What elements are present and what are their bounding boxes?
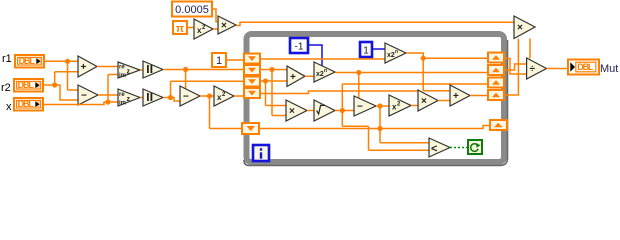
wire scale1 to right sr2 and sr3 [335,73,488,99]
junction negate [377,103,382,108]
wire pi to square [187,27,194,29]
while loop frame [244,34,508,166]
svg-text:-1: -1 [295,42,304,53]
scale by 2^n 2 [385,43,406,63]
junction subtract2 [207,93,212,98]
wire divide to indicator [547,68,569,70]
svg-text:+: + [453,91,459,102]
wire add2 to right sr4 [470,95,488,97]
absolute value 2 [143,89,163,106]
wire re/im2 to abs2 [140,97,143,99]
svg-text:+: + [81,62,87,73]
svg-text:÷: ÷ [530,64,536,75]
svg-text:re: re [119,92,125,98]
loop condition terminal [468,140,482,154]
multiply 2 (loop) [418,90,438,111]
junction r1 [65,59,70,64]
junction abs2 [168,95,173,100]
svg-text:z: z [127,96,131,103]
svg-text:+: + [290,72,296,83]
green wire to condition [450,147,468,149]
wire r2 to add and subtract [43,72,78,100]
svg-text:r2: r2 [1,82,11,94]
svg-text:n: n [395,49,398,55]
indicator Mut DBL [568,60,599,75]
wire multiply-right to divide [529,39,531,59]
svg-text:n: n [324,68,327,74]
add (r1+r2) [78,56,97,77]
wire r1 to add and subtract [44,61,78,90]
wire abs1 to shift register 2 and subtract2 [163,70,244,90]
wire sr3 to multiply-loop top [260,81,287,106]
junction sqrt [340,108,345,113]
multiply (top right) [514,16,535,39]
svg-text:r1: r1 [2,53,12,65]
divide [527,58,547,79]
svg-text:−: − [183,92,189,103]
bottom wire sr5 to right sr5 [259,126,490,129]
square x^2 (top) [194,19,213,39]
constant 1 (blue) [360,42,372,57]
wire re/im1 to abs1 [140,69,143,71]
wire right sr1 to divide bottom [504,59,527,75]
junction abs1 [183,67,188,72]
constant 1 (orange) [212,53,226,67]
svg-text:DBL: DBL [19,56,36,66]
svg-text:Mut: Mut [600,63,618,75]
wire 0.0005 to multiply [212,9,218,22]
junction x [105,99,110,104]
svg-text:re: re [119,64,125,70]
wire x to both re/im [43,75,118,105]
svg-text:im: im [119,101,126,107]
multiply (top-left) [218,16,236,34]
square root [314,100,335,121]
wire right sr4 to multiply-right [504,39,518,96]
right shift register 3 [488,78,504,88]
svg-text:×: × [421,96,427,107]
svg-text:−: − [81,91,87,102]
svg-text:×: × [289,106,295,117]
wire multiply-loop to sqrt [307,110,314,112]
svg-text:0.0005: 0.0005 [175,4,209,16]
svg-text:π: π [176,23,185,35]
svg-text:1: 1 [216,55,222,67]
less than [429,138,450,157]
iteration terminal i [253,145,269,161]
wire scale2 to right sr1 and multiply2 [406,53,488,91]
svg-text:DBL: DBL [18,80,35,90]
left shift register 1 [244,54,260,64]
long wire to top-right multiply [236,22,514,25]
svg-text:x: x [6,101,12,113]
blue wire -1 to scale1 [308,45,322,66]
svg-text:DBL: DBL [18,99,35,109]
absolute value 1 [143,61,163,78]
wire add to re/im 1 [97,66,118,68]
wire sr4 to multiply2 top [260,91,418,94]
svg-text:x2: x2 [316,71,324,78]
terminal r1 DBL [15,55,44,68]
wire right sr2 to divide top [504,64,527,70]
svg-text:−: − [357,102,363,113]
wire add-loop to scale1 [305,75,314,77]
multiply (loop) [286,100,307,121]
terminal x DBL [14,98,43,111]
svg-text:x2: x2 [387,52,395,59]
subtract 2 [180,86,200,106]
junction sr2 [269,67,274,72]
svg-text:×: × [517,23,523,34]
square x^2 (loop) [389,95,411,116]
add (loop) [287,66,305,87]
re/im to complex 2 [118,89,140,107]
negate [354,96,376,116]
right shift register 2 [488,65,504,75]
left shift register 4 [244,88,260,98]
junction bottom [377,126,382,131]
wire const1 to shift register 1 [226,59,244,61]
wire square-loop to multiply2 [411,105,418,107]
wire multiply2 to add2 [438,100,450,102]
constant 0.0005 [172,2,212,17]
wire square to shift register 4 [234,95,244,97]
constant -1 (blue) [290,38,308,53]
re/im to complex 1 [118,62,140,79]
blue wire 1 to scale2 [372,48,385,50]
scale by 2^n 1 [314,62,335,82]
wire subtract to re/im 2 [98,94,118,96]
left shift register 3 [244,77,260,87]
svg-text:DBL: DBL [577,62,594,72]
junction scale2 [421,56,426,61]
wire abs2 to subtract2 and shift register 3 [163,81,244,101]
right shift register 5 [490,120,507,130]
junction scale1 [356,70,361,75]
terminal r2 DBL [14,79,43,92]
subtract (r1-r2) [78,85,98,105]
svg-text:<: < [431,143,437,155]
wire negate to square-loop and down [376,106,429,143]
constant pi [173,21,187,35]
left shift register 5 [242,123,259,134]
right shift register 1 [488,53,504,63]
wire sr2 to add-loop and multiply-loop [260,70,287,116]
right shift register 4 [488,90,504,100]
wire sr1 to scale2 [260,58,385,60]
square x^2 (feeder) [214,86,234,106]
junction r2 [52,82,57,87]
svg-text:×: × [221,21,227,32]
svg-text:im: im [119,73,126,79]
left shift register 2 [244,65,260,75]
wire sqrt output junction [335,84,488,150]
junction sr3 [263,78,268,83]
svg-text:1: 1 [363,46,369,57]
svg-text:z: z [127,69,131,76]
add 2 (loop) [450,85,470,106]
wire square to multiply [213,28,218,30]
wire subtract2 to square and shift register 5 [200,96,242,129]
